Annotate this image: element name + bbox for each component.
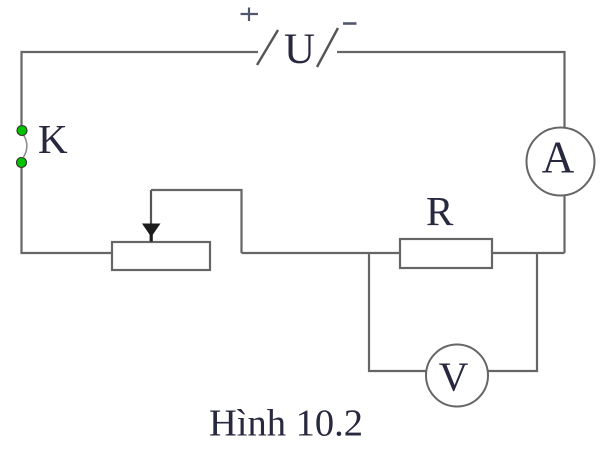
- svg-text:K: K: [38, 116, 68, 162]
- svg-text:U: U: [284, 26, 315, 73]
- svg-text:Hình 10.2: Hình 10.2: [209, 403, 363, 445]
- svg-text:R: R: [426, 188, 454, 234]
- svg-text:V: V: [439, 354, 469, 400]
- svg-text:A: A: [542, 133, 575, 183]
